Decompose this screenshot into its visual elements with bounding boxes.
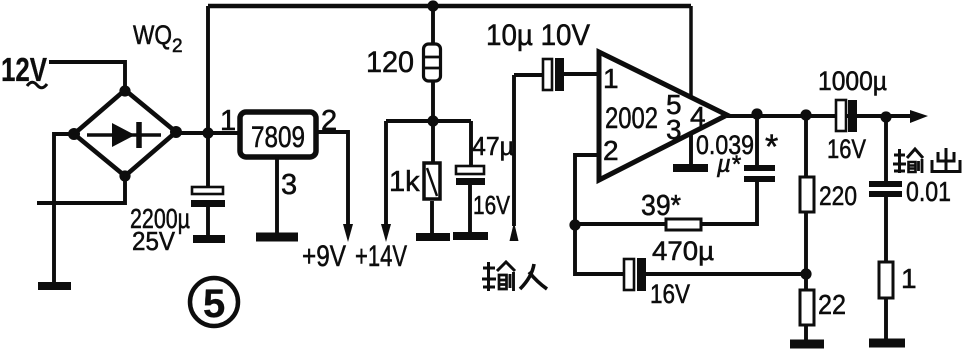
diode inside bridge — [87, 122, 161, 148]
node bridge bottom junction — [119, 170, 130, 181]
resistor R 120 — [424, 6, 441, 163]
svg-text:*: * — [765, 128, 778, 166]
value label 47µ 16V — [472, 131, 514, 220]
wire 7809 pin2 output with down arrow — [316, 132, 353, 242]
capacitor C 470µ 16V — [624, 258, 806, 291]
svg-text:12V: 12V — [1, 51, 47, 88]
resistor R 220 — [800, 115, 814, 290]
svg-text:1: 1 — [901, 263, 917, 294]
svg-text:2: 2 — [603, 135, 619, 166]
capacitor C 2200µ 25V — [191, 187, 225, 236]
node bridge top junction — [119, 85, 130, 96]
capacitor C 0.01 — [869, 117, 902, 262]
node 12V AC input label — [1, 51, 47, 88]
ground below 22 — [790, 340, 824, 349]
ground below amp — [673, 164, 708, 172]
svg-text:WQ: WQ — [133, 20, 172, 50]
wire amp pin2 feedback — [575, 155, 599, 225]
svg-text:220: 220 — [819, 181, 857, 211]
node supply junction at 120 resistor — [427, 0, 438, 11]
ground below 2200µ — [193, 235, 225, 243]
svg-text:10µ 10V: 10µ 10V — [486, 19, 590, 52]
wire left vertical from rail to pin1 node — [206, 6, 210, 188]
node output junction at 220 — [800, 109, 811, 120]
wire +14V rail to 47µ — [386, 119, 471, 123]
node bridge right junction — [170, 126, 182, 138]
svg-text:22: 22 — [818, 289, 846, 320]
wire top supply rail — [208, 4, 691, 9]
output arrow — [910, 110, 928, 123]
ground below 47µ — [453, 232, 488, 240]
value label 1000µ 16V — [818, 66, 887, 164]
wire input line with up arrow — [510, 75, 519, 241]
node output junction at 0.01 — [880, 111, 891, 122]
node pin1 junction — [202, 127, 213, 138]
svg-text:3: 3 — [666, 114, 682, 145]
svg-text:16V: 16V — [650, 279, 690, 309]
svg-text:1: 1 — [603, 63, 619, 94]
value label 470µ 16V — [650, 236, 714, 309]
wire feedback bottom run — [575, 225, 624, 274]
wire 7809 pin3 to ground — [275, 157, 279, 234]
svg-text:2: 2 — [172, 36, 183, 57]
resistor R 1k — [424, 163, 440, 234]
svg-text:2002: 2002 — [605, 102, 658, 135]
ground below 1 — [869, 339, 905, 348]
bridge rectifier WQ2 label — [133, 20, 183, 57]
node junction 470µ to 220/22 — [800, 268, 811, 279]
svg-text:3: 3 — [281, 169, 297, 201]
svg-text:+14V: +14V — [355, 240, 407, 273]
op-amp U 2002 — [599, 52, 727, 180]
wire from 12V to bridge top — [49, 62, 125, 92]
svg-text:1k: 1k — [389, 166, 420, 198]
svg-text:µ*: µ* — [716, 151, 741, 178]
node 输入 input label — [482, 262, 547, 291]
wire bridge bottom to ground rail — [37, 176, 125, 203]
node bridge left junction — [68, 128, 80, 140]
capacitor C 47µ 16V — [456, 121, 485, 232]
bridge rectifier diamond — [74, 90, 176, 176]
svg-text:470µ: 470µ — [652, 236, 714, 266]
wire supply rail drop to amp pin 4 — [689, 6, 693, 98]
svg-text:16V: 16V — [473, 190, 511, 220]
node output junction at 0.039 — [751, 108, 762, 119]
ground below 7809 — [256, 233, 298, 242]
capacitor C 1000µ 16V — [836, 100, 857, 132]
svg-text:4: 4 — [690, 101, 706, 132]
capacitor C 0.039 — [701, 114, 775, 224]
svg-text:5: 5 — [203, 282, 225, 326]
wire bridge left to ground rail — [54, 134, 74, 283]
svg-text:39*: 39* — [641, 190, 681, 222]
svg-text:7809: 7809 — [251, 121, 305, 154]
wire amp output — [727, 114, 912, 118]
resistor R 39* — [575, 219, 701, 230]
svg-text:25V: 25V — [132, 226, 176, 256]
svg-text:120: 120 — [366, 46, 414, 79]
svg-text:1: 1 — [220, 105, 236, 137]
wire amp pins 3,5 to ground — [689, 133, 693, 165]
resistor R 1 — [879, 262, 893, 339]
node feedback junction — [569, 219, 580, 230]
resistor R 22 — [800, 290, 814, 340]
figure number circle 5 — [190, 278, 238, 326]
value label 2200µ 25V — [130, 203, 190, 256]
svg-text:0.01: 0.01 — [906, 176, 951, 207]
capacitor C 10µ input coupling — [514, 58, 599, 91]
svg-text:1000µ: 1000µ — [818, 66, 887, 96]
svg-text:+9V: +9V — [302, 240, 346, 273]
node 输出 output label — [893, 148, 960, 173]
node +14V arrow — [355, 121, 407, 273]
ground below bridge — [38, 282, 71, 290]
wire bridge right to 7809 pin 1 — [176, 131, 240, 135]
svg-text:47µ: 47µ — [472, 131, 514, 161]
node junction at 1k top — [427, 115, 438, 126]
ground below 1k — [416, 233, 450, 241]
regulator U 7809 — [240, 112, 316, 157]
svg-text:16V: 16V — [827, 134, 866, 164]
